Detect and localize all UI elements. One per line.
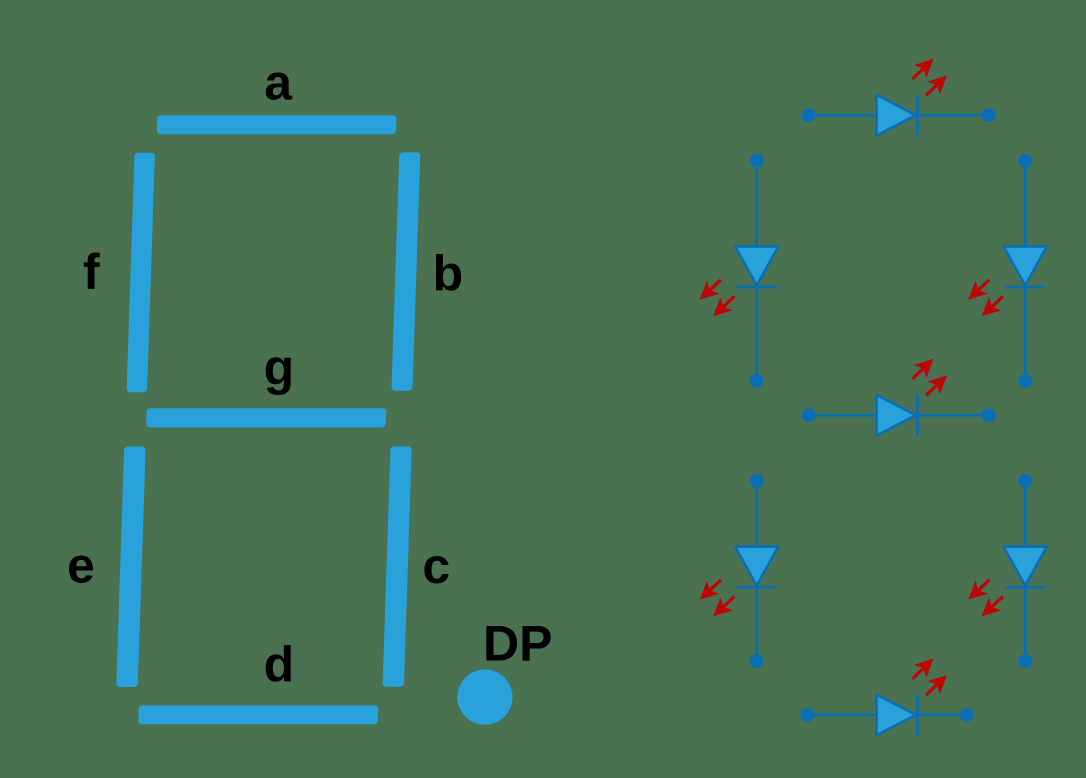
wire LED b — [1024, 161, 1027, 381]
node dot LED e top — [750, 474, 764, 488]
node dot LED a left — [802, 108, 816, 122]
emission arrow 1 of LED d — [906, 652, 940, 685]
segment d — [138, 705, 378, 724]
svg-text:d: d — [264, 637, 295, 693]
emission arrow 1 of LED f — [693, 273, 727, 306]
emission arrow 2 of LED b — [975, 290, 1009, 323]
node dot LED e bottom — [750, 654, 764, 668]
node dot LED f bottom — [750, 374, 764, 388]
LED LED e cathode bar — [737, 586, 777, 589]
node dot LED b bottom — [1018, 374, 1032, 388]
segment f — [127, 153, 155, 393]
wire LED e — [755, 481, 758, 661]
wire LED c — [1024, 481, 1027, 661]
wire LED d — [807, 714, 967, 717]
decimal point DP — [457, 670, 512, 725]
node dot LED g right — [982, 408, 996, 422]
node dot LED c bottom — [1018, 654, 1032, 668]
LED LED c cathode bar — [1005, 586, 1045, 589]
emission arrow 2 of LED e — [707, 590, 741, 623]
LED LED a cathode bar — [916, 95, 919, 136]
segment c — [383, 446, 412, 686]
LED LED g anode triangle — [877, 395, 916, 436]
svg-text:b: b — [433, 245, 464, 301]
node dot LED c top — [1018, 474, 1032, 488]
svg-text:a: a — [264, 55, 293, 111]
segment a — [157, 115, 397, 134]
emission arrow 2 of LED g — [920, 369, 954, 402]
LED LED f cathode bar — [737, 286, 777, 289]
node dot LED d left — [800, 708, 814, 722]
node dot LED d right — [960, 708, 974, 722]
svg-text:DP: DP — [483, 616, 552, 672]
node dot LED b top — [1018, 154, 1032, 168]
node dot LED a right — [982, 108, 996, 122]
emission arrow 1 of LED b — [962, 273, 996, 306]
svg-text:e: e — [67, 537, 95, 593]
emission arrow 2 of LED a — [920, 69, 954, 102]
emission arrow 1 of LED e — [693, 573, 727, 606]
LED LED g cathode bar — [916, 395, 919, 436]
LED LED e anode triangle — [735, 547, 778, 586]
wire LED g — [809, 414, 989, 417]
emission arrow 1 of LED a — [906, 52, 940, 85]
emission arrow 2 of LED d — [920, 668, 954, 701]
svg-text:g: g — [264, 340, 295, 396]
node dot LED g left — [802, 408, 816, 422]
emission arrow 2 of LED c — [975, 590, 1009, 623]
LED LED f anode triangle — [735, 247, 778, 286]
segment b — [391, 152, 420, 390]
LED LED a anode triangle — [877, 95, 916, 136]
node dot LED f top — [750, 154, 764, 168]
segment e — [116, 446, 145, 687]
LED LED c anode triangle — [1004, 547, 1047, 586]
wire LED a — [809, 114, 989, 117]
emission arrow 1 of LED g — [906, 352, 940, 385]
wire LED f — [755, 161, 758, 381]
LED LED d cathode bar — [916, 695, 919, 736]
LED LED d anode triangle — [877, 695, 916, 736]
LED LED b anode triangle — [1004, 247, 1047, 286]
7-segment display group (slanted) — [115, 115, 423, 724]
segment g — [146, 408, 386, 427]
svg-text:f: f — [83, 244, 100, 300]
svg-text:c: c — [422, 538, 450, 594]
emission arrow 1 of LED c — [962, 573, 996, 606]
emission arrow 2 of LED f — [707, 290, 741, 323]
LED LED b cathode bar — [1005, 286, 1045, 289]
